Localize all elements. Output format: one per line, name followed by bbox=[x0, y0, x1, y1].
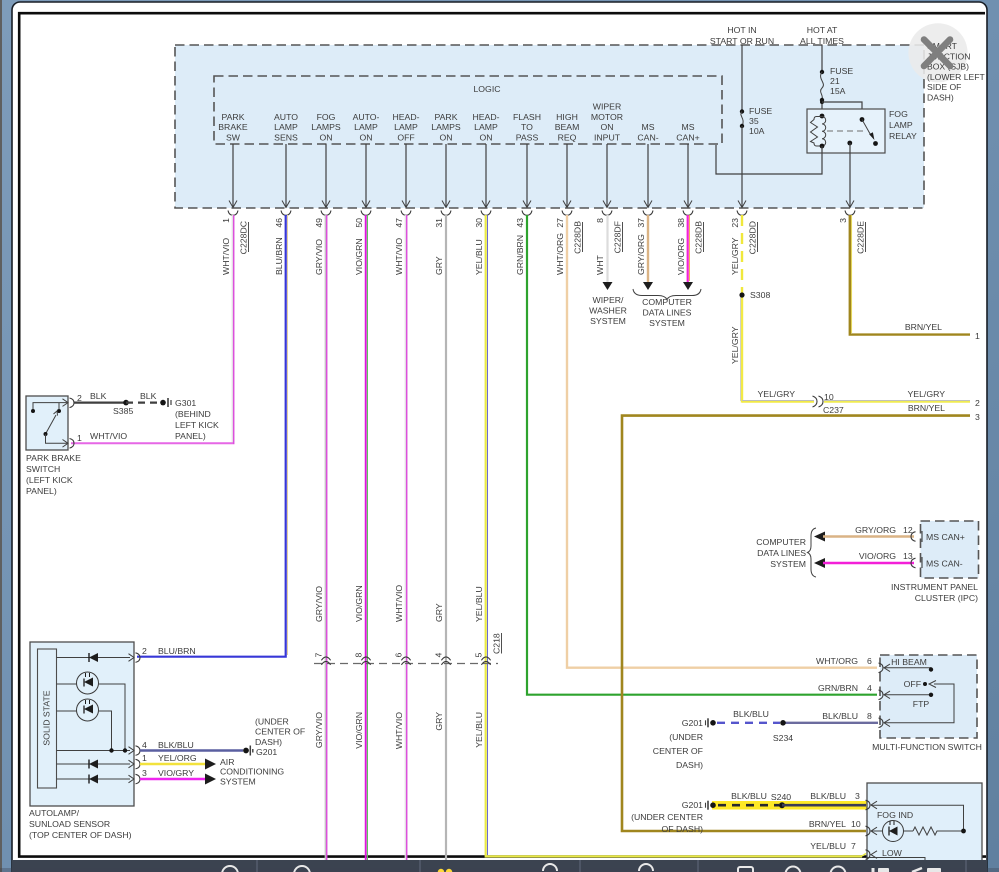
sensor diode row pin 2 bbox=[57, 653, 131, 662]
svg-text:ON: ON bbox=[479, 133, 492, 143]
svg-text:1: 1 bbox=[77, 433, 82, 443]
svg-text:BLK/BLU: BLK/BLU bbox=[822, 711, 858, 721]
fog ind pin 10 connector bbox=[866, 826, 878, 836]
svg-text:GRY/VIO: GRY/VIO bbox=[314, 239, 324, 275]
wire from HOT IN START OR RUN to fuse 35 bbox=[741, 45, 743, 111]
svg-text:GRY/ORG: GRY/ORG bbox=[855, 525, 896, 535]
svg-text:(UNDER: (UNDER bbox=[669, 732, 703, 742]
sensor pin 3 connector bbox=[129, 768, 195, 784]
signal line FLASH TO PASS from logic to SJB edge bbox=[523, 144, 531, 208]
fuse 21 15A bbox=[820, 66, 854, 102]
svg-text:HEAD-: HEAD- bbox=[392, 112, 419, 122]
close button X bbox=[924, 40, 950, 67]
label AIR CONDITIONING SYSTEM bbox=[220, 757, 284, 786]
wire BLK/BLU S240 to fog indicator pin 3 bbox=[782, 804, 866, 807]
SJB caption bbox=[927, 41, 986, 103]
svg-text:SW: SW bbox=[226, 133, 241, 143]
connector C218 pin 4 bbox=[434, 653, 451, 665]
svg-text:SYSTEM: SYSTEM bbox=[220, 776, 256, 786]
svg-text:WHT: WHT bbox=[595, 255, 605, 275]
SJB logic output label PARK LAMPS ON bbox=[431, 112, 461, 143]
wire BLK/BLU G201 to S240 dashed bbox=[718, 804, 779, 807]
svg-text:S234: S234 bbox=[773, 733, 793, 743]
svg-text:C218: C218 bbox=[492, 633, 502, 654]
label WIPER/WASHER SYSTEM bbox=[589, 295, 627, 326]
fog ind resistor bbox=[913, 827, 962, 835]
svg-text:LAMP: LAMP bbox=[394, 122, 418, 132]
svg-text:(UNDER CENTER: (UNDER CENTER bbox=[631, 812, 703, 822]
wire VIO/GRN pin50 vertical bbox=[366, 215, 368, 860]
svg-text:2: 2 bbox=[142, 646, 147, 656]
svg-text:G201: G201 bbox=[256, 747, 277, 757]
svg-text:YEL/GRY: YEL/GRY bbox=[730, 326, 740, 364]
connector C228DE bbox=[856, 221, 866, 254]
svg-text:WHT/VIO: WHT/VIO bbox=[394, 585, 404, 622]
wire BRN/YEL net from right edge pin 3 to fog indicator pin 10 bbox=[622, 416, 970, 831]
svg-text:CAN-: CAN- bbox=[637, 133, 658, 143]
svg-text:DATA LINES: DATA LINES bbox=[757, 548, 806, 558]
label HOT AT ALL TIMES bbox=[800, 25, 844, 46]
autolamp sensor caption bbox=[29, 808, 132, 840]
label HOT IN START OR RUN bbox=[710, 25, 774, 46]
svg-text:ON: ON bbox=[359, 133, 372, 143]
label COMPUTER DATA LINES SYSTEM bbox=[642, 297, 692, 328]
svg-text:VIO/ORG: VIO/ORG bbox=[676, 238, 686, 275]
label BRN/YEL pin 10 bbox=[809, 819, 861, 829]
svg-text:CONDITIONING: CONDITIONING bbox=[220, 767, 284, 777]
ground G301 bbox=[160, 398, 219, 441]
svg-text:HI BEAM: HI BEAM bbox=[891, 657, 927, 667]
svg-text:MS: MS bbox=[641, 122, 654, 132]
svg-text:1: 1 bbox=[221, 218, 231, 223]
svg-text:BRAKE: BRAKE bbox=[218, 122, 248, 132]
svg-text:PARK BRAKE: PARK BRAKE bbox=[26, 453, 81, 463]
svg-text:HOT AT: HOT AT bbox=[807, 25, 838, 35]
fog ind LED lamp bbox=[871, 821, 913, 842]
svg-text:MS CAN-: MS CAN- bbox=[926, 559, 963, 569]
smart junction box SJB outline bbox=[175, 45, 924, 208]
svg-text:YEL/BLU: YEL/BLU bbox=[474, 586, 484, 622]
svg-text:(LOWER LEFT: (LOWER LEFT bbox=[927, 72, 986, 82]
connector C218 pin 5 bbox=[474, 653, 491, 665]
label BRN/YEL right 3 bbox=[908, 403, 980, 422]
svg-text:C228DF: C228DF bbox=[613, 221, 623, 253]
splice S234 bbox=[773, 720, 793, 743]
svg-text:ON: ON bbox=[600, 122, 613, 132]
svg-text:LAMP: LAMP bbox=[474, 122, 498, 132]
svg-text:15A: 15A bbox=[830, 86, 846, 96]
SJB logic output label PARK BRAKE SW bbox=[218, 112, 248, 143]
svg-text:23: 23 bbox=[730, 218, 740, 228]
svg-text:MS CAN+: MS CAN+ bbox=[926, 532, 965, 542]
svg-text:TO: TO bbox=[521, 122, 533, 132]
label GRN/BRN pin 4 bbox=[818, 683, 872, 693]
svg-text:OF DASH): OF DASH) bbox=[661, 824, 703, 834]
wire WHT/VIO pin47 vertical bbox=[405, 215, 406, 860]
bottom toolbar bbox=[12, 860, 987, 872]
close button bbox=[908, 23, 967, 82]
svg-text:21: 21 bbox=[830, 76, 840, 86]
svg-text:G201: G201 bbox=[682, 718, 703, 728]
svg-text:BLK: BLK bbox=[90, 391, 107, 401]
svg-text:BLU/BRN: BLU/BRN bbox=[274, 237, 284, 275]
signal line AUTO- LAMP ON from logic to SJB edge bbox=[362, 144, 370, 208]
svg-text:1: 1 bbox=[975, 331, 980, 341]
svg-text:5: 5 bbox=[474, 653, 484, 658]
svg-text:SWITCH: SWITCH bbox=[26, 464, 60, 474]
svg-text:MOTOR: MOTOR bbox=[591, 112, 623, 122]
svg-text:FOG: FOG bbox=[317, 112, 336, 122]
svg-text:PARK: PARK bbox=[434, 112, 457, 122]
wire relay coil return to logic box bbox=[716, 145, 822, 174]
signal line PARK BRAKE SW from logic to SJB edge bbox=[229, 144, 237, 208]
relay internal dashed link bbox=[827, 130, 866, 132]
SJB logic output label FOG LAMPS ON bbox=[311, 112, 341, 143]
svg-text:8: 8 bbox=[354, 653, 364, 658]
svg-text:10A: 10A bbox=[749, 126, 765, 136]
svg-text:WHT/ORG: WHT/ORG bbox=[555, 233, 565, 275]
multi-function switch bbox=[880, 655, 977, 738]
wire WHT/ORG pin27 SJB to multi-function switch pin6 bbox=[567, 215, 877, 668]
svg-text:LEFT KICK: LEFT KICK bbox=[175, 420, 219, 430]
wire VIO/ORG pin38 to computer data lines bbox=[683, 215, 693, 290]
svg-text:BLK/BLU: BLK/BLU bbox=[810, 791, 846, 801]
svg-text:AUTO-: AUTO- bbox=[353, 112, 380, 122]
svg-text:YEL/BLU: YEL/BLU bbox=[810, 841, 846, 851]
ground G201 under center of dash bbox=[243, 717, 305, 758]
svg-text:INPUT: INPUT bbox=[594, 133, 621, 143]
svg-text:SENS: SENS bbox=[274, 133, 298, 143]
svg-text:SYSTEM: SYSTEM bbox=[770, 559, 806, 569]
wire BLK S385 to ground G301 bbox=[126, 391, 160, 403]
svg-text:GRN/BRN: GRN/BRN bbox=[818, 683, 858, 693]
svg-text:SOLID STATE: SOLID STATE bbox=[42, 690, 52, 745]
signal line MS CAN- from logic to SJB edge bbox=[644, 144, 652, 208]
svg-text:C237: C237 bbox=[823, 405, 844, 415]
svg-text:HOT IN: HOT IN bbox=[727, 25, 756, 35]
svg-text:BLK/BLU: BLK/BLU bbox=[731, 791, 767, 801]
svg-text:YEL/BLU: YEL/BLU bbox=[474, 712, 484, 748]
wire GRY pin31 vertical bbox=[445, 215, 447, 860]
svg-text:S385: S385 bbox=[113, 406, 133, 416]
svg-text:(BEHIND: (BEHIND bbox=[175, 409, 211, 419]
MFS pin 8 connector bbox=[879, 718, 891, 728]
svg-text:30: 30 bbox=[474, 218, 484, 228]
svg-text:RELAY: RELAY bbox=[889, 131, 917, 141]
SJB logic output label AUTO- LAMP ON bbox=[353, 112, 380, 143]
connector C218 pin 7 bbox=[314, 653, 331, 665]
svg-text:47: 47 bbox=[394, 218, 404, 228]
instrument panel cluster IPC box bbox=[921, 521, 979, 578]
signal line HEAD- LAMP ON from logic to SJB edge bbox=[482, 144, 490, 208]
svg-text:WIPER: WIPER bbox=[593, 102, 621, 112]
svg-text:GRY/ORG: GRY/ORG bbox=[636, 234, 646, 275]
svg-text:HIGH: HIGH bbox=[556, 112, 578, 122]
svg-text:WHT/VIO: WHT/VIO bbox=[90, 431, 127, 441]
SJB logic output label FLASH TO PASS bbox=[513, 112, 541, 143]
signal line HIGH BEAM REQ from logic to SJB edge bbox=[563, 144, 571, 208]
svg-text:CLUSTER (IPC): CLUSTER (IPC) bbox=[915, 593, 978, 603]
svg-text:CENTER OF: CENTER OF bbox=[653, 746, 703, 756]
svg-text:VIO/GRN: VIO/GRN bbox=[354, 585, 364, 622]
park brake switch pin 2 connector bbox=[70, 393, 83, 408]
SJB logic output label WIPER MOTOR ON INPUT bbox=[591, 102, 623, 143]
svg-text:MS: MS bbox=[681, 122, 694, 132]
signal line WIPER MOTOR ON INPUT from logic to SJB edge bbox=[603, 144, 611, 208]
svg-text:WHT/VIO: WHT/VIO bbox=[394, 238, 404, 275]
svg-text:1: 1 bbox=[142, 753, 147, 763]
connector cups at SJB bottom edge bbox=[228, 211, 855, 216]
splice S385 bbox=[113, 400, 133, 416]
connector C228DB bbox=[573, 221, 583, 254]
MFS FTP contact bbox=[884, 693, 933, 709]
svg-text:GRN/BRN: GRN/BRN bbox=[515, 235, 525, 275]
svg-text:(TOP CENTER OF DASH): (TOP CENTER OF DASH) bbox=[29, 830, 132, 840]
svg-text:C228DE: C228DE bbox=[856, 221, 866, 254]
svg-text:COMPUTER: COMPUTER bbox=[756, 537, 806, 547]
svg-text:WHT/VIO: WHT/VIO bbox=[221, 238, 231, 275]
wire fuse 21 to relay coil and switch bbox=[820, 100, 862, 119]
svg-text:WHT/VIO: WHT/VIO bbox=[394, 712, 404, 749]
svg-text:WIPER/: WIPER/ bbox=[593, 295, 624, 305]
park brake switch bbox=[26, 396, 68, 450]
wire VIO/GRY sensor pin3 to AC system bbox=[140, 774, 216, 785]
svg-text:SIDE OF: SIDE OF bbox=[927, 82, 961, 92]
sensor diode row pin 1 bbox=[57, 760, 131, 769]
svg-text:46: 46 bbox=[274, 218, 284, 228]
label YEL/BLU pin 7 bbox=[810, 841, 856, 851]
svg-text:ON: ON bbox=[319, 133, 332, 143]
svg-text:C228DB: C228DB bbox=[573, 221, 583, 254]
svg-text:BEAM: BEAM bbox=[555, 122, 580, 132]
svg-text:FOG IND: FOG IND bbox=[877, 810, 913, 820]
connector C228DD bbox=[748, 221, 758, 254]
svg-text:LAMP: LAMP bbox=[889, 120, 913, 130]
svg-text:PARK: PARK bbox=[221, 112, 244, 122]
connector C218 pin 8 bbox=[354, 653, 371, 665]
wire YEL/GRY pin23 to S308 and C237 bbox=[741, 215, 815, 403]
svg-text:DASH): DASH) bbox=[255, 737, 282, 747]
label BLK/BLU pin 3 bbox=[810, 791, 860, 801]
label WHT/ORG pin 6 bbox=[816, 656, 872, 666]
highlighted wire S240 yellow trace bbox=[712, 801, 868, 810]
svg-text:REQ: REQ bbox=[558, 133, 577, 143]
IPC caption bbox=[891, 582, 978, 603]
park brake switch pin 1 connector bbox=[70, 433, 83, 448]
fog lamp relay U1 bbox=[807, 109, 917, 153]
signal line HEAD- LAMP OFF from logic to SJB edge bbox=[402, 144, 410, 208]
svg-text:4: 4 bbox=[142, 740, 147, 750]
wire GRN/BRN pin43 SJB to multi-function switch pin4 bbox=[527, 215, 877, 695]
wire YEL/ORG sensor pin1 to AC system bbox=[140, 759, 216, 770]
wire relay switch output to SJB edge pin 3 bbox=[846, 143, 854, 208]
svg-text:BLK: BLK bbox=[140, 391, 157, 401]
svg-text:YEL/GRY: YEL/GRY bbox=[730, 237, 740, 275]
svg-text:CAN+: CAN+ bbox=[676, 133, 699, 143]
SJB logic output label MS CAN+ bbox=[676, 122, 699, 142]
sensor pin 2 connector bbox=[129, 646, 196, 662]
svg-text:LAMP: LAMP bbox=[354, 122, 378, 132]
ground G201 for S234 bbox=[653, 718, 716, 770]
svg-text:OFF: OFF bbox=[904, 679, 921, 689]
connector C228DF bbox=[613, 221, 623, 253]
inline connector C218 row bbox=[314, 663, 498, 665]
wire GRY/ORG pin37 to computer data lines bbox=[643, 215, 653, 290]
svg-text:7: 7 bbox=[851, 841, 856, 851]
wire BLU/BRN pin46 SJB to autolamp sensor bbox=[137, 215, 288, 657]
svg-text:8: 8 bbox=[867, 711, 872, 721]
svg-text:BLK/BLU: BLK/BLU bbox=[733, 709, 769, 719]
svg-text:13: 13 bbox=[903, 551, 913, 561]
svg-text:GRY/VIO: GRY/VIO bbox=[314, 586, 324, 622]
svg-text:GRY: GRY bbox=[434, 256, 444, 275]
toolbar icons bbox=[222, 864, 941, 872]
svg-text:SYSTEM: SYSTEM bbox=[590, 316, 626, 326]
connector label C218 bbox=[492, 633, 502, 654]
svg-text:3: 3 bbox=[838, 218, 848, 223]
svg-text:FUSE: FUSE bbox=[749, 106, 772, 116]
svg-text:AUTO: AUTO bbox=[274, 112, 298, 122]
svg-text:YEL/BLU: YEL/BLU bbox=[474, 239, 484, 275]
label BRN/YEL right 1 bbox=[905, 322, 980, 341]
svg-text:LOGIC: LOGIC bbox=[473, 84, 500, 94]
svg-text:DASH): DASH) bbox=[676, 760, 703, 770]
svg-text:GRY: GRY bbox=[434, 712, 444, 731]
wire BLK/BLU sensor pin4 to ground G201 bbox=[140, 749, 243, 751]
svg-text:4: 4 bbox=[867, 683, 872, 693]
svg-text:WASHER: WASHER bbox=[589, 306, 627, 316]
svg-text:PASS: PASS bbox=[516, 133, 539, 143]
brace under computer data lines arrows bbox=[633, 289, 701, 300]
sensor pin 1 connector bbox=[129, 753, 197, 769]
svg-text:WHT/ORG: WHT/ORG bbox=[816, 656, 858, 666]
svg-text:GRY/VIO: GRY/VIO bbox=[314, 712, 324, 748]
fog ind internal wiring bbox=[871, 805, 964, 831]
svg-text:SUNLOAD SENSOR: SUNLOAD SENSOR bbox=[29, 819, 110, 829]
label BLK/BLU pin 8 bbox=[822, 711, 872, 721]
wire WHT/VIO pin1 SJB to park brake switch bbox=[71, 215, 234, 444]
svg-text:50: 50 bbox=[354, 218, 364, 228]
fog ind junction bbox=[961, 829, 966, 834]
svg-text:(UNDER: (UNDER bbox=[255, 717, 289, 727]
svg-text:FTP: FTP bbox=[913, 699, 930, 709]
svg-text:GRY: GRY bbox=[434, 603, 444, 622]
svg-text:YEL/ORG: YEL/ORG bbox=[158, 753, 197, 763]
svg-text:AIR: AIR bbox=[220, 757, 234, 767]
sensor diode row pin 3 bbox=[57, 775, 131, 784]
svg-text:LAMPS: LAMPS bbox=[431, 122, 461, 132]
SJB logic output label HEAD- LAMP ON bbox=[472, 112, 499, 143]
splice S308 bbox=[739, 290, 770, 300]
sensor photodiode 2 bbox=[57, 699, 112, 750]
sensor pin 4 connector bbox=[129, 740, 194, 755]
svg-text:ALL TIMES: ALL TIMES bbox=[800, 36, 844, 46]
wire GRY/VIO pin49 vertical bbox=[325, 215, 326, 860]
SJB logic output label HEAD- LAMP OFF bbox=[392, 112, 419, 143]
svg-text:OFF: OFF bbox=[397, 133, 414, 143]
relay switch contacts bbox=[847, 117, 878, 146]
svg-text:6: 6 bbox=[394, 653, 404, 658]
svg-text:INSTRUMENT PANEL: INSTRUMENT PANEL bbox=[891, 582, 978, 592]
relay coil bbox=[811, 114, 826, 149]
svg-text:S308: S308 bbox=[750, 290, 770, 300]
svg-text:C228DC: C228DC bbox=[239, 221, 249, 254]
wire BLK/BLU MFS pin8 to S234 bbox=[783, 722, 878, 724]
svg-text:3: 3 bbox=[142, 768, 147, 778]
svg-text:43: 43 bbox=[515, 218, 525, 228]
fuse 35 10A bbox=[740, 106, 773, 136]
svg-text:FOG: FOG bbox=[889, 109, 908, 119]
fog ind pin 7 connector bbox=[866, 850, 878, 860]
wire YEL/GRY from C237 to pin 2 right edge bbox=[824, 401, 970, 402]
svg-text:7: 7 bbox=[314, 653, 324, 658]
SJB logic output label MS CAN- bbox=[637, 122, 658, 142]
svg-text:CENTER OF: CENTER OF bbox=[255, 727, 305, 737]
svg-text:BRN/YEL: BRN/YEL bbox=[908, 403, 945, 413]
svg-text:YEL/GRY: YEL/GRY bbox=[907, 389, 945, 399]
svg-text:10: 10 bbox=[851, 819, 861, 829]
LOGIC box outline bbox=[214, 76, 722, 144]
svg-text:YEL/GRY: YEL/GRY bbox=[757, 389, 795, 399]
label COMPUTER DATA LINES SYSTEM right bbox=[756, 537, 806, 569]
MFS HI BEAM contact bbox=[884, 657, 933, 672]
svg-text:SYSTEM: SYSTEM bbox=[649, 318, 685, 328]
svg-text:DATA LINES: DATA LINES bbox=[643, 308, 692, 318]
svg-text:2: 2 bbox=[975, 398, 980, 408]
wire VIO/ORG to IPC MS CAN- pin 13 bbox=[814, 551, 916, 568]
svg-text:49: 49 bbox=[314, 218, 324, 228]
park brake switch caption bbox=[26, 453, 81, 496]
wire BLK park brake switch to S385 bbox=[74, 391, 126, 403]
connector C228DB bbox=[694, 221, 704, 254]
ground G201 for S240 bbox=[631, 800, 716, 834]
svg-text:VIO/GRN: VIO/GRN bbox=[354, 238, 364, 275]
svg-text:FLASH: FLASH bbox=[513, 112, 541, 122]
svg-text:PANEL): PANEL) bbox=[175, 431, 206, 441]
svg-text:C228DB: C228DB bbox=[694, 221, 704, 254]
connector C218 pin 6 bbox=[394, 653, 411, 665]
svg-text:AUTOLAMP/: AUTOLAMP/ bbox=[29, 808, 80, 818]
svg-text:G201: G201 bbox=[682, 800, 703, 810]
svg-text:3: 3 bbox=[975, 412, 980, 422]
svg-text:PANEL): PANEL) bbox=[26, 486, 57, 496]
svg-text:3: 3 bbox=[855, 791, 860, 801]
svg-text:4: 4 bbox=[434, 653, 444, 658]
svg-text:6: 6 bbox=[867, 656, 872, 666]
wire BRN/YEL pin3 relay output to right edge pin 1 bbox=[850, 215, 970, 335]
connector C237 pin 10 bbox=[813, 392, 846, 415]
fog ind pin 3 connector bbox=[866, 800, 878, 810]
svg-text:37: 37 bbox=[636, 218, 646, 228]
svg-text:MULTI-FUNCTION SWITCH: MULTI-FUNCTION SWITCH bbox=[872, 742, 982, 752]
autolamp sunload sensor bbox=[30, 642, 134, 806]
brace for computer data lines bbox=[808, 528, 817, 577]
connector C228DC bbox=[239, 221, 249, 254]
signal line AUTO LAMP SENS from logic to SJB edge bbox=[282, 144, 290, 208]
MFS pin 4 connector bbox=[879, 690, 891, 700]
fog ind LOW section bbox=[866, 848, 925, 872]
svg-text:(LEFT KICK: (LEFT KICK bbox=[26, 475, 73, 485]
svg-text:8: 8 bbox=[595, 218, 605, 223]
signal line FOG LAMPS ON from logic to SJB edge bbox=[322, 144, 330, 208]
SJB logic output label HIGH BEAM REQ bbox=[555, 112, 580, 143]
svg-text:LOW: LOW bbox=[882, 848, 903, 858]
svg-text:31: 31 bbox=[434, 218, 444, 228]
svg-text:FUSE: FUSE bbox=[830, 66, 853, 76]
signal line MS CAN+ from logic to SJB edge bbox=[684, 144, 692, 208]
svg-text:COMPUTER: COMPUTER bbox=[642, 297, 692, 307]
svg-text:HEAD-: HEAD- bbox=[472, 112, 499, 122]
